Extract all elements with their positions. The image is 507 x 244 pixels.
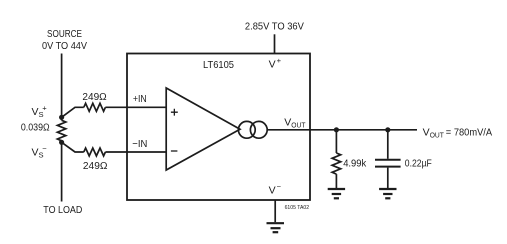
node VS+ junction dot — [59, 115, 64, 120]
svg-text:249Ω: 249Ω — [82, 91, 106, 103]
svg-text:0V TO 44V: 0V TO 44V — [42, 40, 87, 52]
resistor R3 4.99k — [332, 153, 341, 174]
IC U1 LT6105 body — [127, 54, 310, 201]
node junction dot C1 — [385, 127, 390, 132]
svg-text:V: V — [269, 184, 276, 196]
svg-text:−IN: −IN — [132, 138, 147, 150]
op-amp A1 triangle — [166, 88, 240, 170]
label VOUT = 780mV/A — [423, 126, 492, 139]
svg-text:0.22µF: 0.22µF — [405, 158, 432, 170]
svg-text:TO LOAD: TO LOAD — [43, 204, 82, 216]
wire VS+ to R1 — [62, 107, 84, 117]
label VS+ — [32, 103, 48, 119]
svg-text:+IN: +IN — [133, 93, 147, 105]
op-amp plus sign — [171, 109, 178, 116]
svg-text:V: V — [269, 59, 276, 71]
wire C1 to ground — [387, 168, 389, 188]
label VS- — [32, 144, 48, 160]
wire VS- to R2 — [62, 142, 84, 152]
wire to R3 — [335, 130, 337, 153]
svg-text:LT6105: LT6105 — [203, 59, 234, 71]
resistor R1 249ohm — [84, 103, 106, 111]
svg-text:249Ω: 249Ω — [83, 160, 108, 172]
svg-text:+: + — [42, 103, 47, 112]
ground symbol below R3 — [328, 189, 345, 198]
pin label V+ — [269, 56, 282, 71]
current source symbol circle 2 — [250, 121, 267, 138]
resistor R2 249ohm — [84, 148, 106, 156]
svg-text:V: V — [32, 106, 39, 118]
wire V- to ground — [274, 200, 276, 222]
ground symbol below C1 — [379, 189, 396, 198]
wire R3 to ground — [335, 174, 337, 188]
wire R2 to -IN — [105, 151, 166, 153]
resistor RSENSE 0.039ohm — [57, 120, 65, 141]
node VS- junction dot — [59, 140, 64, 145]
svg-text:V: V — [32, 147, 39, 159]
pin label VOUT — [284, 116, 306, 129]
ground symbol below V- — [267, 223, 285, 232]
svg-text:V: V — [423, 126, 430, 138]
node junction dot R3 — [334, 127, 339, 132]
wire V+ supply — [274, 34, 276, 53]
capacitor C1 0.22uF — [375, 160, 401, 167]
wire output — [267, 129, 417, 131]
current source symbol circle 1 — [238, 121, 255, 138]
svg-text:−: − — [42, 144, 47, 153]
svg-text:0.039Ω: 0.039Ω — [21, 122, 50, 134]
svg-text:V: V — [284, 116, 291, 128]
svg-text:OUT: OUT — [291, 120, 306, 129]
svg-text:6105 TA02: 6105 TA02 — [285, 205, 310, 211]
svg-text:= 780mV/A: = 780mV/A — [446, 126, 492, 138]
wire R1 to +IN — [105, 106, 166, 108]
wire source vertical lower — [61, 141, 63, 202]
svg-text:SOURCE: SOURCE — [47, 28, 82, 40]
wire to C1 — [387, 130, 389, 159]
svg-text:OUT: OUT — [430, 130, 445, 139]
op-amp minus sign — [171, 150, 178, 152]
svg-text:+: + — [277, 56, 282, 65]
wire source vertical upper — [61, 54, 63, 121]
pin label V- — [269, 182, 282, 197]
svg-text:2.85V TO 36V: 2.85V TO 36V — [245, 21, 304, 33]
node SOURCE label — [42, 28, 87, 52]
svg-text:4.99k: 4.99k — [343, 158, 367, 170]
svg-text:−: − — [277, 182, 282, 191]
